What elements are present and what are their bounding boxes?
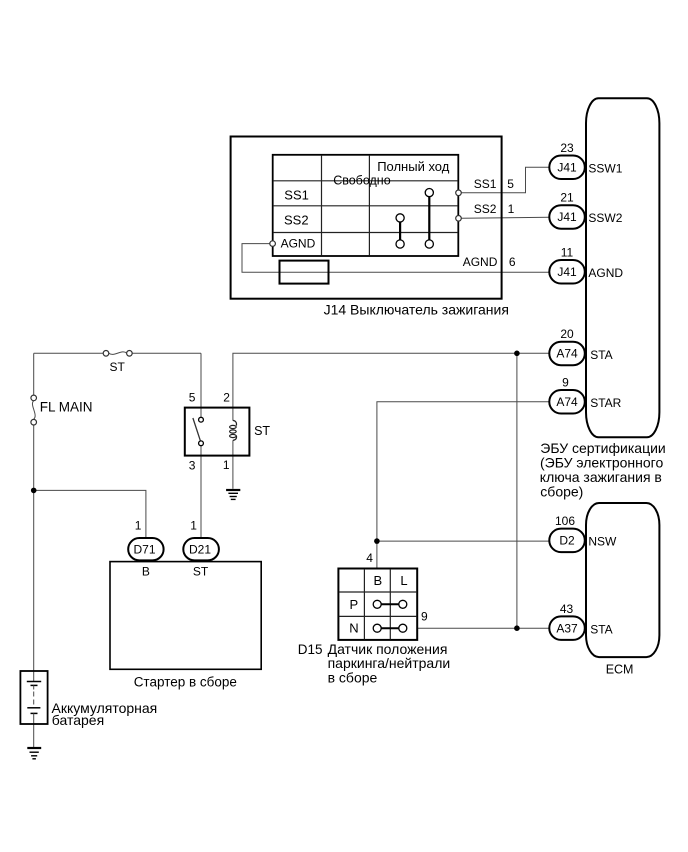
svg-text:NSW: NSW <box>588 535 617 549</box>
svg-text:AGND: AGND <box>588 266 623 280</box>
svg-text:сборе): сборе) <box>540 483 583 499</box>
svg-text:B: B <box>374 573 383 588</box>
svg-text:в сборе: в сборе <box>328 670 378 686</box>
svg-text:1: 1 <box>223 458 230 472</box>
svg-text:106: 106 <box>555 514 575 528</box>
svg-text:AGND: AGND <box>463 255 498 269</box>
svg-text:Стартер в сборе: Стартер в сборе <box>134 674 237 689</box>
svg-text:J14 Выключатель зажигания: J14 Выключатель зажигания <box>324 302 509 318</box>
svg-text:FL MAIN: FL MAIN <box>40 400 93 415</box>
svg-text:J41: J41 <box>557 161 577 175</box>
svg-text:Полный ход: Полный ход <box>377 159 450 174</box>
svg-text:9: 9 <box>562 375 569 389</box>
svg-text:ST: ST <box>110 360 126 374</box>
svg-text:SSW2: SSW2 <box>588 211 622 225</box>
svg-text:STA: STA <box>590 623 612 637</box>
svg-text:STAR: STAR <box>590 396 621 410</box>
svg-text:43: 43 <box>560 602 574 616</box>
svg-text:SS1: SS1 <box>284 187 309 202</box>
svg-text:A74: A74 <box>556 347 578 361</box>
svg-text:ST: ST <box>254 424 270 438</box>
svg-text:Свободно: Свободно <box>333 174 391 188</box>
svg-text:D21: D21 <box>189 542 211 556</box>
svg-text:11: 11 <box>561 245 574 259</box>
svg-text:A37: A37 <box>556 621 578 635</box>
svg-text:ЭБУ сертификации: ЭБУ сертификации <box>540 440 665 456</box>
svg-text:1: 1 <box>190 519 197 533</box>
svg-text:3: 3 <box>189 458 196 472</box>
svg-text:6: 6 <box>509 255 516 269</box>
svg-text:1: 1 <box>508 202 515 216</box>
svg-text:ST: ST <box>193 564 209 578</box>
svg-text:A74: A74 <box>556 395 578 409</box>
svg-text:P: P <box>350 597 359 612</box>
svg-text:ECM: ECM <box>606 663 634 677</box>
svg-text:STA: STA <box>590 348 612 362</box>
svg-text:20: 20 <box>560 327 574 341</box>
svg-text:L: L <box>400 573 407 588</box>
svg-text:N: N <box>349 621 358 636</box>
svg-text:D2: D2 <box>559 534 575 548</box>
svg-text:9: 9 <box>421 610 428 624</box>
svg-text:SS2: SS2 <box>284 213 309 228</box>
svg-text:SS1: SS1 <box>474 177 497 191</box>
svg-text:1: 1 <box>135 519 142 533</box>
svg-text:5: 5 <box>189 390 196 404</box>
svg-text:5: 5 <box>507 177 514 191</box>
svg-text:AGND: AGND <box>281 236 316 250</box>
svg-text:21: 21 <box>560 191 574 205</box>
svg-text:батарея: батарея <box>52 712 104 728</box>
svg-text:2: 2 <box>223 390 230 404</box>
svg-text:SSW1: SSW1 <box>588 161 622 175</box>
svg-text:D71: D71 <box>134 542 156 556</box>
svg-text:B: B <box>142 564 150 578</box>
svg-text:D15: D15 <box>298 642 323 657</box>
svg-text:J41: J41 <box>557 265 577 279</box>
svg-text:J41: J41 <box>557 210 577 224</box>
svg-text:4: 4 <box>366 551 373 565</box>
svg-text:23: 23 <box>560 141 574 155</box>
svg-text:SS2: SS2 <box>474 202 497 216</box>
